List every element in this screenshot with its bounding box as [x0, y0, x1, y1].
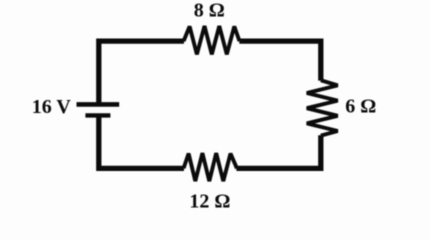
resistor R1 8Ω (top, horizontal zigzag)	[184, 26, 240, 54]
svg-text:16 V: 16 V	[32, 96, 72, 118]
wire: R1 right lead to top-right corner, down to R2 top lead	[239, 41, 320, 81]
battery V1 16V: short negative plate	[85, 113, 110, 117]
wire: battery positive terminal up left side to top-left corner, across to R1 left lead	[99, 41, 184, 103]
resistor R3 12Ω (bottom, horizontal zigzag)	[184, 153, 237, 181]
svg-text:8 Ω: 8 Ω	[194, 0, 225, 22]
resistor R2 6Ω (right side, vertical zigzag)	[307, 80, 338, 135]
wire: R3 left lead to bottom-left corner, up to battery negative terminal	[99, 117, 184, 169]
svg-text:6 Ω: 6 Ω	[345, 95, 376, 117]
wire: R2 bottom lead down to bottom-right corner, across to R3 right lead	[236, 135, 320, 168]
battery V1 16V: long positive plate	[77, 102, 120, 107]
svg-text:12 Ω: 12 Ω	[189, 190, 230, 211]
